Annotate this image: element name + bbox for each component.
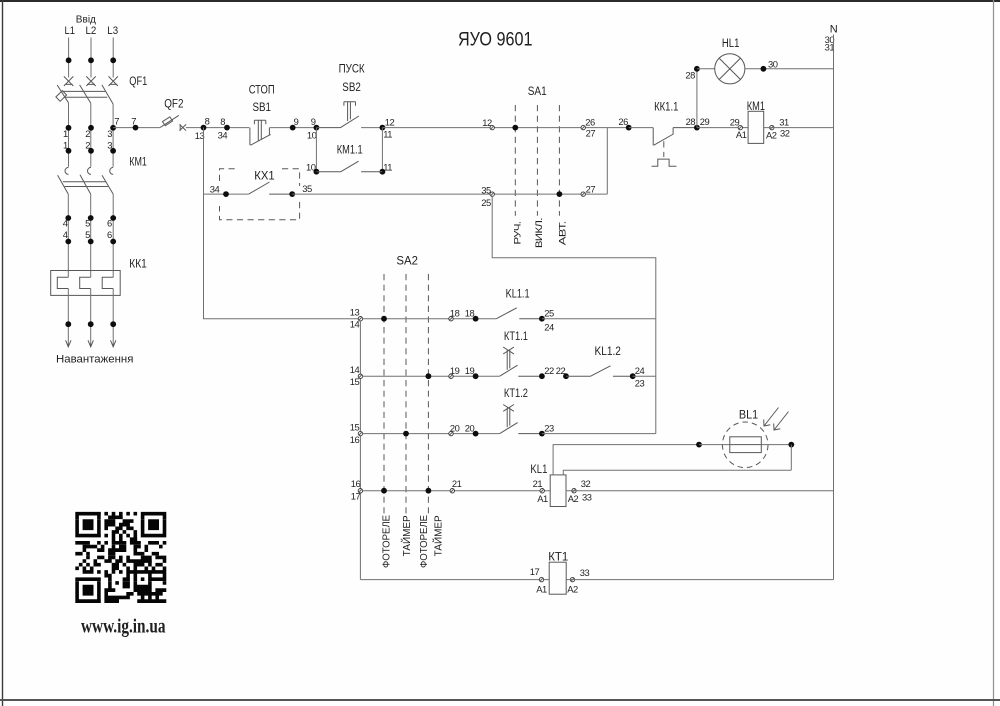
breaker QF1 trip flag [56, 91, 67, 102]
svg-text:КМ1: КМ1 [129, 154, 147, 168]
wire pole 3 QF1 bend to node 7 [112, 104, 114, 128]
thermal contact KK1.1 [653, 128, 697, 146]
svg-text:27: 27 [586, 184, 596, 195]
wire coil KM1 to N [764, 127, 834, 129]
svg-text:А1: А1 [537, 493, 548, 504]
wire pole 1 QF1 to KM1 [68, 103, 70, 167]
svg-text:22: 22 [544, 365, 554, 376]
thermal relay KK1 box [51, 271, 121, 296]
svg-text:30: 30 [768, 58, 778, 69]
wire 12 to SA1 [382, 127, 492, 129]
relay box KX1 dashed [220, 169, 300, 220]
breaker QF1 blade pole 3 [102, 85, 113, 104]
svg-text:BL1: BL1 [739, 408, 758, 422]
svg-text:23: 23 [544, 422, 554, 433]
breaker QF1 fixed contact pole 3 [109, 76, 118, 86]
svg-text:КТ1.1: КТ1.1 [504, 329, 528, 343]
junction dot node 35 [289, 191, 295, 197]
wire 27 vertical link [606, 128, 608, 195]
wire 28 vertical to HL1 [696, 69, 698, 128]
wire SB2 to node 12 [361, 127, 382, 129]
junction dot 22b [563, 373, 569, 379]
wire pole 3 KM1 to KK1 [112, 194, 114, 277]
svg-text:19: 19 [465, 365, 475, 376]
labels 1 2 3 upper [63, 128, 112, 139]
labels 1 2 3 lower [63, 140, 112, 151]
breaker QF2 trip flag [163, 117, 173, 126]
junction dot node 12 [380, 125, 386, 131]
terminal circle 14-15 [358, 374, 362, 378]
contactor KM1 fixed arc pole 1 [65, 167, 68, 174]
selector SA1 position line АВТ dashed [558, 105, 560, 216]
svg-text:32: 32 [780, 128, 790, 139]
selector SA2 position line 2 dashed [405, 274, 407, 516]
wire row D [362, 490, 550, 492]
svg-text:А2: А2 [567, 583, 578, 594]
terminal circle A2 KT1 [570, 577, 574, 581]
thermal relay KK1 heater pole 3 [102, 277, 113, 288]
svg-text:34: 34 [210, 183, 220, 194]
svg-text:SB1: SB1 [253, 100, 272, 114]
contactor KM1 blade pole 1 [58, 175, 69, 194]
selector SA1 position line ВИКЛ dashed [536, 105, 538, 216]
junction dot wire 7 [133, 125, 139, 131]
contactor KM1 fixed arc pole 2 [88, 167, 91, 174]
svg-text:А2: А2 [766, 129, 777, 140]
svg-text:27: 27 [586, 128, 596, 139]
junction dot 22a [539, 373, 545, 379]
terminal circle 13-14 [358, 317, 362, 321]
terminal circle A1 KM1 [738, 125, 742, 129]
junction dot node 34 [223, 191, 229, 197]
svg-text:HL1: HL1 [722, 36, 740, 50]
svg-text:18: 18 [465, 308, 475, 319]
svg-text:24: 24 [544, 321, 554, 332]
terminal circle 15-16 [358, 431, 362, 435]
labels 4 5 6 upper [63, 217, 112, 228]
wire pole 2 QF1 to KM1 [90, 103, 92, 167]
svg-text:ЯУО 9601: ЯУО 9601 [458, 30, 533, 51]
wire row B [362, 375, 499, 377]
junction dot 26 [626, 125, 632, 131]
svg-text:ФОТОРЕЛЕ: ФОТОРЕЛЕ [419, 515, 430, 568]
selector SA1 position line РУЧ dashed [514, 105, 516, 216]
contact KL1.1 [496, 308, 542, 319]
junction dot row C pos2 [403, 431, 409, 437]
wire row B right [633, 375, 656, 377]
svg-text:17: 17 [530, 566, 540, 577]
wire 26 to KK1.1 [629, 127, 654, 129]
svg-text:5: 5 [85, 229, 90, 240]
svg-text:15: 15 [350, 376, 360, 387]
svg-text:1: 1 [63, 128, 68, 139]
junction dots wires 1-2-3 lower [66, 148, 116, 154]
svg-text:8: 8 [205, 116, 210, 127]
junction dot BL1 left [696, 442, 702, 448]
svg-text:11: 11 [383, 129, 392, 140]
svg-text:33: 33 [582, 492, 592, 503]
svg-text:14: 14 [350, 319, 360, 330]
junction dot node 28 [694, 125, 700, 131]
coil KL1 [550, 475, 566, 507]
junction dot 19 [473, 373, 479, 379]
wire 29 to coil KM1 [697, 127, 748, 129]
svg-text:13: 13 [350, 306, 360, 317]
svg-text:KL1.2: KL1.2 [595, 344, 622, 358]
contactor KM1 blade pole 3 [102, 175, 113, 194]
wire QF2 to node 8 [186, 127, 250, 129]
junction dot SA1 row2 pos3 [557, 191, 563, 197]
svg-text:24: 24 [635, 365, 645, 376]
light arrow 2 BL1 [774, 412, 789, 431]
contactor KM1 blade pole 2 [80, 175, 91, 194]
svg-text:6: 6 [107, 217, 112, 228]
svg-text:КМ1.1: КМ1.1 [337, 143, 363, 157]
labels 4 5 6 lower [63, 229, 112, 240]
wire SB1 to node 9 [270, 127, 317, 129]
terminal circle A1 KL1 [540, 489, 544, 493]
wire SA1 row2 [494, 193, 607, 195]
terminal circle 12 [490, 125, 494, 129]
terminal circle 35-25 [490, 192, 494, 196]
selector SA2 position line 3 dashed [427, 274, 429, 516]
wire pole 3 KK1 to load [112, 289, 114, 344]
svg-text:5: 5 [85, 217, 90, 228]
svg-text:26: 26 [618, 116, 628, 127]
junction dot 30 [761, 66, 767, 72]
svg-text:20: 20 [465, 422, 475, 433]
svg-text:31: 31 [825, 42, 835, 53]
svg-text:SA1: SA1 [528, 84, 547, 98]
svg-text:Навантаження: Навантаження [56, 354, 133, 366]
wire row C right [542, 433, 656, 435]
junction dots wires 1-2-3 upper [66, 125, 116, 131]
time contact KT1.1 [500, 347, 542, 376]
svg-text:SA2: SA2 [396, 253, 418, 267]
breaker QF1 blade pole 1 [57, 85, 68, 103]
svg-text:25: 25 [481, 197, 491, 208]
wire 10 vertical [315, 128, 317, 172]
wire 25 feed down-right [492, 196, 656, 433]
wire KL1 top stub 1 to BL1 row [553, 445, 699, 475]
svg-text:КТ1: КТ1 [548, 549, 568, 563]
breaker QF2 fixed contact [180, 124, 187, 131]
svg-text:ВИКЛ.: ВИКЛ. [533, 218, 544, 248]
wire 34 left [204, 193, 249, 195]
aux contact KM1.1 [316, 161, 382, 172]
terminal circle A2 KM1 [770, 125, 774, 129]
terminal circle A2 KL1 [572, 489, 576, 493]
svg-text:KL1: KL1 [530, 462, 547, 476]
svg-text:8: 8 [220, 116, 225, 127]
lamp HL1 [715, 54, 745, 84]
wire BL1 right drop [790, 445, 792, 471]
arrow load L3 [111, 340, 116, 347]
svg-text:РУЧ.: РУЧ. [512, 222, 523, 245]
photo sensor BL1 [722, 422, 768, 468]
junction dots wires 4-5-6 upper [65, 215, 116, 221]
junction dot node 8a [201, 125, 207, 131]
breaker QF1 fixed contact pole 1 [64, 76, 73, 86]
svg-text:КХ1: КХ1 [254, 169, 275, 183]
junction dot BL1 right [788, 442, 794, 448]
svg-text:КК1.1: КК1.1 [654, 100, 678, 114]
svg-text:L2: L2 [86, 25, 97, 37]
junction dot node 8b [224, 125, 230, 131]
svg-text:16: 16 [350, 434, 360, 445]
light arrow 1 BL1 [764, 408, 779, 427]
svg-text:35: 35 [302, 183, 312, 194]
junction dot 24-23 [630, 373, 636, 379]
wire BL1 left lead [699, 444, 730, 446]
wire pole 1 KK1 to load [67, 289, 69, 344]
svg-text:31: 31 [779, 116, 789, 127]
svg-text:L3: L3 [107, 25, 118, 37]
breaker QF2 blade [160, 115, 179, 127]
svg-text:21: 21 [452, 478, 462, 489]
svg-text:15: 15 [350, 422, 360, 433]
terminal circle 27 row2 [581, 192, 585, 196]
svg-text:ТАЙМЕР: ТАЙМЕР [400, 515, 413, 556]
svg-text:А1: А1 [736, 129, 747, 140]
svg-text:7: 7 [114, 116, 119, 127]
junction dot node 9b [314, 125, 320, 131]
arrow load L1 [66, 340, 71, 347]
wire KL1 top stub 2 return [563, 470, 791, 475]
svg-text:23: 23 [635, 378, 645, 389]
wire lamp to N [745, 68, 834, 70]
wire row D right to N [566, 490, 834, 492]
selector SA2 position line 1 dashed [383, 274, 385, 516]
junction dot 20 [473, 431, 479, 437]
arrow load L2 [88, 340, 93, 347]
pushbutton SB2 NO contact [316, 102, 359, 128]
breaker QF1 linkage bar [63, 91, 107, 97]
breaker QF1 blade pole 2 [80, 85, 91, 103]
wire pole 2 KM1 to KK1 [90, 194, 92, 277]
svg-text:www.ig.in.ua: www.ig.in.ua [81, 617, 166, 638]
svg-text:L1: L1 [65, 25, 75, 37]
svg-text:28: 28 [685, 70, 695, 81]
junction dots wires 4-5-6 lower [65, 239, 116, 245]
wire pole 3 down to KM1 [112, 128, 114, 167]
svg-text:10: 10 [307, 130, 317, 141]
wire 35 to SA1 [292, 193, 492, 195]
coil KM1 [748, 111, 764, 143]
breaker QF1 fixed contact pole 2 [86, 76, 95, 86]
junction dot node 10 [314, 169, 320, 175]
wire SA1 row1 [494, 127, 629, 129]
thermal relay KK1 heater pole 2 [80, 277, 91, 288]
terminal circle 19 [449, 374, 453, 378]
wire rail 13 down [204, 128, 361, 319]
wire to lamp [697, 68, 715, 70]
terminal circle 26-27 [581, 125, 585, 129]
thermal element symbol KK1.1 [652, 159, 677, 166]
svg-text:29: 29 [700, 116, 710, 127]
svg-text:28: 28 [686, 116, 696, 127]
svg-text:12: 12 [385, 116, 395, 127]
junction dot node 11 [380, 169, 386, 175]
junction dot row D pos1 [381, 488, 387, 494]
svg-text:ТАЙМЕР: ТАЙМЕР [431, 515, 444, 556]
junction dot L3 [110, 57, 116, 63]
svg-text:2: 2 [85, 128, 90, 139]
wire row A right [542, 318, 656, 320]
terminal circle 21 [450, 489, 454, 493]
contactor KM1 linkage bar [63, 182, 108, 187]
wire 11 vertical [381, 128, 383, 172]
terminal circle 16-17 [358, 489, 362, 493]
junction dot row A pos1 [381, 316, 387, 322]
svg-text:4: 4 [63, 229, 68, 240]
svg-text:32: 32 [581, 478, 591, 489]
svg-text:16: 16 [351, 478, 361, 489]
wire N rail [833, 35, 835, 580]
wire row A [362, 318, 496, 320]
wire phase L1 input [68, 38, 70, 78]
wire 7 node3 to QF2 [113, 127, 160, 129]
contact KL1.2 [566, 366, 633, 376]
page border right [993, 0, 995, 706]
junction dot node 9a [290, 125, 296, 131]
wire row C [362, 433, 499, 435]
page border left [2, 0, 4, 706]
junction dot row B pos3 [426, 373, 432, 379]
svg-text:QF2: QF2 [164, 97, 183, 111]
svg-text:КК1: КК1 [129, 256, 147, 270]
junction dot L1 [66, 57, 72, 63]
svg-text:АВТ.: АВТ. [556, 221, 567, 245]
wire pole 1 KM1 to KK1 [67, 194, 69, 277]
wire BL1 right lead [761, 444, 791, 446]
junction dot SA1 row1 pos1 [512, 125, 518, 131]
svg-text:SB2: SB2 [342, 80, 361, 94]
junction dot 23 [539, 431, 545, 437]
junction dots load [65, 321, 116, 327]
time contact KT1.2 [500, 405, 542, 434]
wire ladder left rail [359, 321, 361, 580]
QR code [75, 512, 166, 603]
thermal relay KK1 heater pole 1 [57, 277, 68, 288]
terminal circle A1 KT1 [539, 577, 543, 581]
junction dot row D pos3 [426, 488, 432, 494]
svg-text:А1: А1 [536, 583, 547, 594]
page border top [0, 0, 1000, 2]
svg-text:21: 21 [533, 478, 543, 489]
wire row E left [360, 579, 549, 581]
coil KT1 [549, 562, 566, 594]
junction dot 28 upper [694, 66, 700, 72]
wire phase L2 input [90, 38, 92, 78]
junction dot L2 [88, 57, 94, 63]
svg-text:КТ1.2: КТ1.2 [504, 386, 528, 400]
contactor KM1 fixed arc pole 3 [110, 167, 114, 174]
svg-text:Ввід: Ввід [76, 13, 96, 25]
svg-text:СТОП: СТОП [249, 83, 275, 97]
page border bottom [0, 699, 1000, 701]
svg-text:ФОТОРЕЛЕ: ФОТОРЕЛЕ [381, 515, 392, 568]
svg-text:QF1: QF1 [129, 74, 147, 88]
svg-text:А2: А2 [568, 493, 579, 504]
svg-text:6: 6 [107, 229, 112, 240]
svg-text:4: 4 [63, 217, 68, 228]
wire phase L3 input [112, 38, 114, 78]
svg-text:26: 26 [585, 116, 595, 127]
terminal circle 20 [449, 431, 453, 435]
svg-text:KL1.1: KL1.1 [506, 287, 530, 301]
thermal contact KK1.1 dashed link [663, 141, 665, 157]
svg-text:9: 9 [294, 116, 299, 127]
svg-text:25: 25 [544, 307, 554, 318]
terminal circle 18 [449, 317, 453, 321]
svg-text:3: 3 [107, 128, 112, 139]
contact KX1 [249, 182, 293, 194]
wire row E right to N [566, 579, 833, 581]
svg-text:33: 33 [580, 567, 590, 578]
svg-text:34: 34 [218, 130, 228, 141]
junction dot 18 [473, 316, 479, 322]
wire pole 2 KK1 to load [90, 289, 92, 344]
junction dot 25-24 [539, 316, 545, 322]
svg-text:29: 29 [730, 117, 740, 128]
pushbutton SB1 NC contact [250, 120, 271, 145]
svg-text:14: 14 [350, 364, 360, 375]
svg-text:ПУСК: ПУСК [339, 62, 366, 76]
